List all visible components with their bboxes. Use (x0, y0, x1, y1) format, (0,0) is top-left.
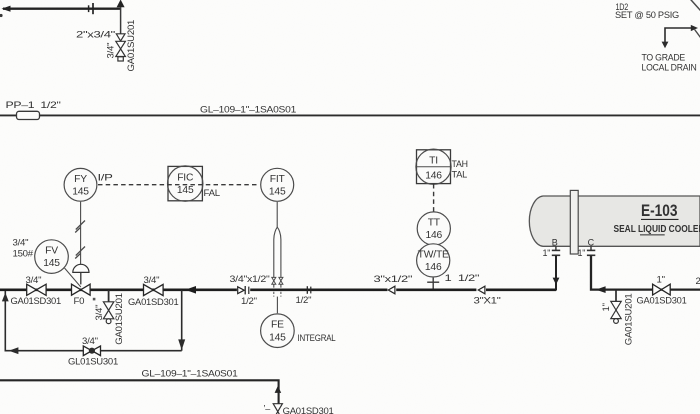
svg-text:FIC: FIC (177, 173, 194, 184)
reducer 3"x1/2" (388, 286, 395, 294)
svg-text:B: B (552, 238, 558, 248)
svg-text:3/4": 3/4" (106, 43, 117, 59)
svg-text:2": 2" (696, 276, 700, 287)
leader from FV to valve (65, 268, 81, 287)
reducer 3"X1" (478, 286, 485, 294)
svg-text:3/4": 3/4" (144, 275, 160, 286)
wire line GL-109 upper (0, 114, 700, 116)
svg-text:1": 1" (657, 275, 665, 286)
wire nozzle C riser and outlet run (591, 256, 700, 290)
svg-text:3/4": 3/4" (13, 238, 29, 249)
svg-text:GL01SU301: GL01SU301 (68, 357, 118, 368)
wire nozzle B riser (555, 256, 557, 291)
valve GL01SU301 (globe, bypass) (83, 346, 100, 356)
svg-text:GA01SU201: GA01SU201 (114, 293, 125, 345)
instrument TW/TE 146 (417, 244, 450, 277)
stray scan dot (0, 14, 3, 17)
wire TW connection to pipe (432, 278, 434, 289)
svg-text:TAH: TAH (452, 159, 469, 170)
wire signal FY down to valve actuator (80, 202, 82, 265)
svg-text:FIT: FIT (270, 174, 286, 185)
svg-text:145: 145 (269, 332, 286, 343)
flow arrow down from B (553, 278, 560, 285)
svg-text:LOCAL DRAIN: LOCAL DRAIN (642, 63, 697, 73)
svg-text:145: 145 (43, 258, 60, 269)
svg-text:FV: FV (45, 246, 58, 257)
svg-text:TAL: TAL (452, 170, 468, 181)
svg-text:SET @ 50 PSIG: SET @ 50 PSIG (615, 10, 679, 20)
svg-text:146: 146 (425, 262, 442, 273)
flow arrow up on drop leg (275, 386, 282, 393)
svg-text:GA01SD301: GA01SD301 (637, 296, 687, 307)
wire dashed signal FY-FIC-FIT (98, 184, 259, 186)
svg-text:FE: FE (271, 320, 284, 331)
spec break PP-1 (17, 111, 40, 119)
flow arrow left toward C (596, 286, 606, 293)
svg-text:SEAL LIQUID COOLER: SEAL LIQUID COOLER (614, 224, 700, 235)
reducer 2"x3/4" (116, 34, 125, 41)
svg-text:145: 145 (269, 186, 286, 197)
flow arrow left on main line (185, 286, 196, 294)
svg-text:GL–109–1"–1SA0S01: GL–109–1"–1SA0S01 (200, 104, 296, 115)
svg-text:C: C (588, 238, 595, 248)
svg-text:3/4": 3/4" (26, 275, 42, 286)
flow element FE lance (274, 227, 281, 287)
orifice tap valves (272, 277, 283, 284)
valve PSV partial at corner (690, 0, 700, 11)
wire dashed signal TI-TT (433, 184, 435, 212)
valve GA01SD301 (bottom, partial) (273, 404, 282, 414)
svg-text:1": 1" (543, 248, 551, 258)
instrument TT 146 (417, 212, 450, 245)
svg-text:1/2": 1/2" (296, 295, 312, 306)
svg-text:TW/TE: TW/TE (418, 249, 449, 260)
wire main process line (left run) (0, 288, 556, 291)
svg-text:GL–109–1"–1SA0S01: GL–109–1"–1SA0S01 (142, 368, 238, 379)
svg-text:GA01SU201: GA01SU201 (623, 294, 634, 346)
svg-text:1": 1" (578, 248, 586, 258)
control valve FV-145 body (72, 284, 91, 295)
svg-text:146: 146 (426, 230, 443, 241)
svg-text:FY: FY (74, 174, 87, 185)
exchanger E-103 shell (529, 196, 700, 246)
svg-text:F0: F0 (74, 296, 85, 307)
valve GA01SU201 (vertical, outlet drain) (611, 301, 621, 323)
svg-text:GA01SU201: GA01SU201 (126, 20, 137, 72)
flow arrow up into main line (2, 293, 9, 302)
valve GA01SD301 (outlet) (653, 284, 671, 295)
svg-text:TO GRADE: TO GRADE (642, 53, 686, 63)
flow arrow left on bypass (9, 347, 19, 354)
svg-text:GA01SD301: GA01SD301 (11, 296, 62, 307)
svg-text:145: 145 (177, 185, 194, 196)
instrument FV 145 (35, 240, 69, 274)
svg-text:’–: ’– (264, 404, 271, 414)
wire element tails below line (274, 292, 281, 297)
flange pair on top pipe (88, 5, 90, 12)
svg-text:2"x3/4": 2"x3/4" (76, 30, 115, 41)
electric signal mark 2 (75, 247, 85, 259)
electric signal mark 1 (75, 221, 85, 233)
svg-text:150#: 150# (13, 249, 34, 260)
wire element to FE bubble (276, 297, 278, 314)
wire drain elbow (665, 28, 692, 43)
instrument FIC 145 (shared display) (168, 166, 202, 200)
flow arrow down to grade (662, 42, 669, 49)
stray tick (93, 298, 96, 301)
svg-text:TI: TI (429, 156, 438, 167)
svg-text:INTEGRAL: INTEGRAL (298, 333, 337, 344)
flow arrow up at branch junction (117, 0, 125, 7)
wire bypass right riser (181, 290, 183, 351)
exchanger tube sheet (570, 190, 578, 254)
svg-text:GA01SD301: GA01SD301 (283, 406, 334, 414)
valve GA01SU201 (vertical, below F0) (103, 302, 113, 324)
wire FIT down to element (276, 202, 278, 228)
wire drain branch at F0 (108, 290, 110, 302)
svg-text:146: 146 (425, 170, 442, 181)
svg-text:FAL: FAL (204, 188, 221, 199)
reducer 3/4"x1/2" (238, 287, 245, 294)
svg-text:3/4": 3/4" (82, 336, 98, 347)
svg-text:E-103: E-103 (641, 202, 678, 220)
svg-text:1 1/2": 1 1/2" (445, 273, 480, 284)
flow arrow down on bypass riser (178, 339, 185, 350)
wire bypass bottom run (5, 350, 181, 352)
svg-text:1/2": 1/2" (241, 296, 257, 307)
wire vertical branch from top pipe (120, 7, 122, 34)
svg-text:3"X1": 3"X1" (474, 296, 501, 307)
valve GA01SU201 (top, vertical gate valve) (116, 41, 126, 61)
flow arrow right to PSV (691, 25, 698, 31)
svg-text:3"x1/2": 3"x1/2" (374, 274, 413, 285)
instrument TI 146 (board mounted) (417, 150, 451, 184)
svg-text:TT: TT (428, 218, 441, 229)
svg-text:3/4"x1/2": 3/4"x1/2" (230, 274, 270, 285)
instrument FY 145 (64, 168, 97, 201)
instrument FE 145 (261, 314, 295, 348)
wire lower GL-109 line (0, 380, 279, 403)
instrument FIT 145 (261, 168, 294, 201)
control valve FV-145 actuator diaphragm (73, 264, 89, 272)
wire top pipe line (3, 7, 121, 9)
flow arrow left end of top pipe (2, 6, 11, 12)
flange pair right of FE (306, 286, 308, 294)
svg-text:I/P: I/P (98, 173, 113, 184)
wire bypass left riser (4, 291, 6, 352)
wire drain branch on outlet (615, 290, 617, 302)
valve GA01SD301 (east block valve) (144, 284, 164, 295)
svg-text:3/4": 3/4" (94, 305, 105, 321)
svg-text:GA01SD301: GA01SD301 (128, 297, 179, 308)
svg-text:1": 1" (601, 303, 612, 311)
svg-text:145: 145 (72, 186, 89, 197)
valve GA01SD301 (west block valve) (27, 284, 46, 295)
svg-text:PP–1 1/2": PP–1 1/2" (6, 100, 61, 111)
